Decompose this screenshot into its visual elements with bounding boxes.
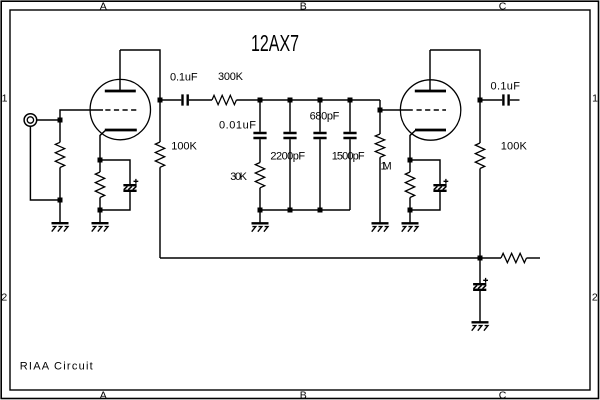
node V2 cathode junction [408, 158, 413, 163]
svg-text:300K: 300K [218, 71, 244, 83]
capacitor 0.01uF [253, 100, 266, 163]
triode V1b 12AX7 envelope [400, 80, 460, 140]
wire cap to 300K [189, 99, 212, 101]
wire 30K to bottom bus [259, 188, 261, 210]
wire node down to filter cap [479, 258, 481, 283]
wire cathode to bypass cap V1 [100, 160, 130, 184]
capacitor 1500pF [343, 100, 356, 210]
svg-text:A: A [100, 0, 107, 12]
wire V2 plate to rail [430, 50, 480, 100]
ground under input network [52, 223, 69, 231]
node input/grid junction [58, 118, 63, 123]
resistor 300K [212, 95, 236, 104]
wire cathode to bypass cap V2 [410, 160, 440, 184]
svg-text:B: B [300, 390, 307, 400]
capacitor 0.1uF coupling (left) [183, 94, 188, 105]
resistor 100K plate load V1 [155, 100, 164, 258]
svg-text:2: 2 [1, 291, 7, 303]
node RIAA col3 top [318, 98, 323, 103]
resistor 1M grid V2 [375, 110, 384, 223]
node RIAA col1 bottom [258, 208, 263, 213]
resistor grid leak V1 [55, 120, 64, 200]
capacitor 2200pF [283, 100, 296, 210]
svg-text:12AX7: 12AX7 [251, 30, 299, 56]
wire node to supply resistor [480, 257, 501, 259]
svg-text:A: A [100, 390, 107, 400]
node RIAA col4 top [348, 98, 353, 103]
svg-text:30K: 30K [230, 171, 247, 183]
triode V1a plate [105, 50, 136, 91]
wire supply stub [527, 257, 541, 259]
triode V1b cathode [410, 130, 446, 160]
svg-text:1M: 1M [381, 161, 392, 173]
node V1 cathode bottom [98, 208, 103, 213]
triode V1a 12AX7 envelope [90, 79, 150, 139]
node V2 cathode bottom [408, 208, 413, 213]
svg-text:0.01uF: 0.01uF [219, 119, 256, 131]
wire to ground 4 [409, 210, 411, 223]
wire 300K to RIAA network [236, 99, 380, 101]
triode V1b grid (dashed) [417, 109, 447, 111]
resistor supply dropper [501, 253, 526, 262]
wire B+ rail across bottom [160, 257, 480, 259]
input jack J1 [24, 114, 37, 127]
svg-text:2: 2 [592, 291, 598, 303]
node V2 grid [378, 108, 383, 113]
ground under V1 cathode [92, 223, 109, 231]
capacitor 680pF [313, 100, 326, 210]
svg-text:B: B [300, 0, 307, 12]
node V1 cathode junction [98, 158, 103, 163]
svg-text:1500pF: 1500pF [332, 151, 365, 163]
wire V2 grid node to grid [380, 109, 413, 111]
svg-text:C: C [499, 0, 507, 12]
wire plate node to coupling cap [160, 99, 181, 101]
svg-text:0.1uF: 0.1uF [491, 81, 521, 93]
svg-text:RIAA Circuit: RIAA Circuit [20, 360, 93, 372]
svg-text:1: 1 [592, 93, 598, 105]
node RIAA col1 top [258, 98, 263, 103]
resistor 100K plate load V2 [475, 100, 484, 258]
resistor V1 cathode [95, 160, 104, 210]
svg-text:100K: 100K [501, 141, 528, 153]
svg-text:1: 1 [2, 93, 8, 105]
wire jack down and across to ground node [30, 126, 60, 200]
node RIAA col3 bottom [318, 208, 323, 213]
ground under V2 cathode [402, 223, 419, 231]
wire grid node up to grid of V1 [60, 110, 103, 120]
wire bypass cap to cathode bottom V2 [410, 192, 440, 210]
svg-text:680pF: 680pF [310, 111, 340, 123]
capacitor 0.1uF output [503, 94, 508, 105]
node V1 plate output [158, 98, 163, 103]
node RIAA col2 top [288, 98, 293, 103]
resistor V2 cathode [405, 160, 414, 210]
svg-text:0.1uF: 0.1uF [170, 71, 198, 83]
node grid-leak bottom [58, 198, 63, 203]
wire RIAA bottom bus [260, 209, 350, 211]
wire filter cap to ground [479, 291, 481, 323]
node V2 plate output [478, 98, 483, 103]
wire node to ground 1 [59, 200, 61, 223]
wire to ground 2 [99, 210, 101, 223]
triode V1a cathode [100, 130, 137, 160]
triode V1b plate [415, 50, 446, 91]
ground under RIAA network [252, 223, 269, 231]
triode V1a grid (dashed) [105, 109, 136, 111]
svg-text:100K: 100K [171, 141, 197, 153]
node RIAA col2 bottom [288, 208, 293, 213]
node B+ junction [478, 256, 483, 261]
svg-text:C: C [499, 390, 507, 400]
capacitor V2 cathode bypass (electrolytic) [433, 179, 448, 191]
wire output stub [510, 99, 520, 101]
wire plate node to output cap [480, 99, 502, 101]
ground under 1M [372, 223, 389, 231]
wire bypass cap to cathode bottom [100, 192, 130, 210]
wire bus to ground 3 [259, 210, 261, 223]
ground under filter cap [472, 322, 489, 330]
wire jog down to V2 grid node [379, 100, 381, 110]
wire V1 plate to plate-load rail [120, 50, 160, 100]
svg-text:2200pF: 2200pF [270, 151, 305, 163]
capacitor supply filter (electrolytic) [473, 278, 488, 290]
wire jack to grid node [37, 119, 60, 121]
capacitor V1 cathode bypass (electrolytic) [123, 179, 138, 191]
resistor 30K [255, 163, 264, 188]
